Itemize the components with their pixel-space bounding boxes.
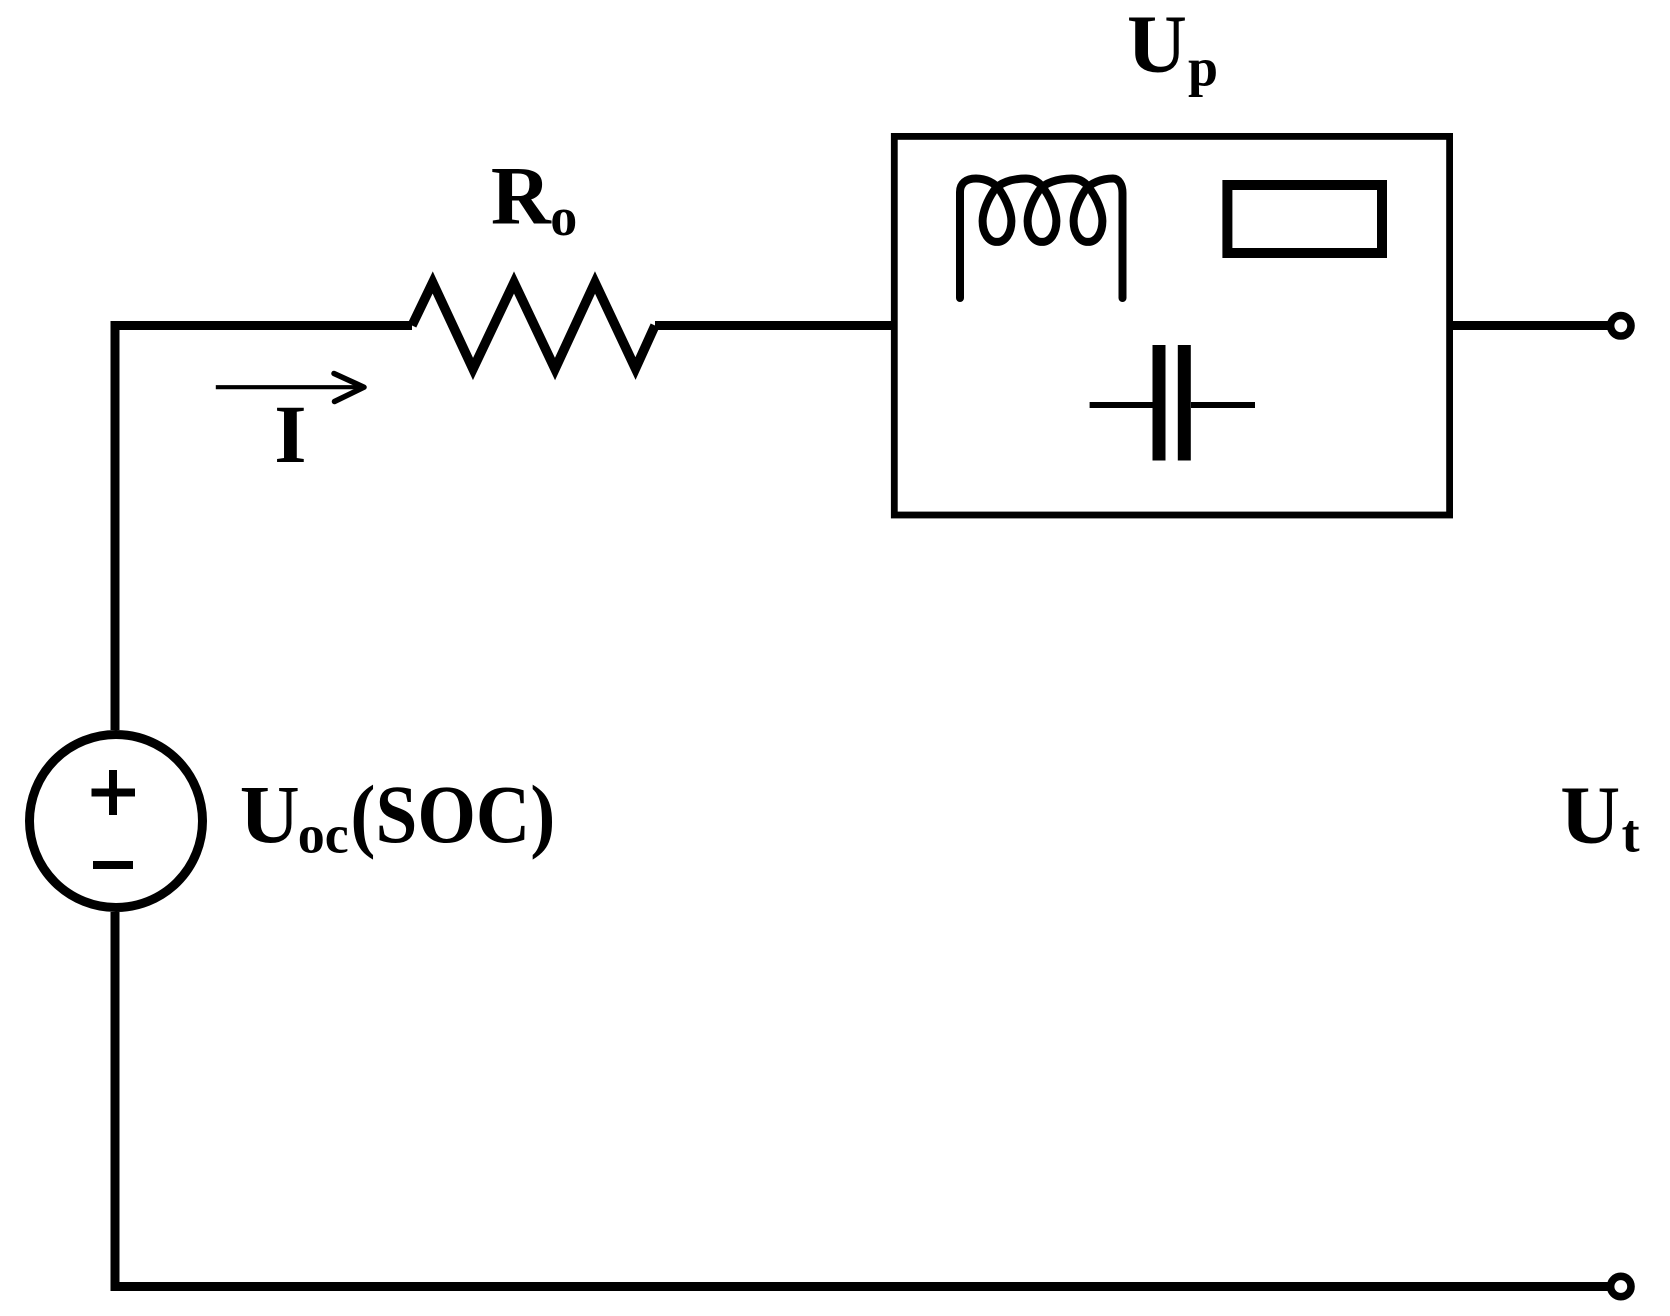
svg-text:U: U <box>1560 769 1620 861</box>
svg-text:oc: oc <box>298 805 349 865</box>
svg-text:p: p <box>1188 38 1218 98</box>
svg-text:(SOC): (SOC) <box>350 768 555 860</box>
svg-text:U: U <box>240 768 300 860</box>
svg-text:I: I <box>274 388 306 480</box>
svg-text:U: U <box>1127 0 1187 90</box>
svg-text:R: R <box>491 150 552 242</box>
svg-text:o: o <box>550 187 577 247</box>
svg-text:t: t <box>1622 804 1640 864</box>
